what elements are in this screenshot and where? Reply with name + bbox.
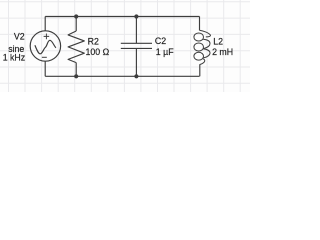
- svg-text:C2: C2: [155, 36, 166, 46]
- wire: bottom rail: [45, 75, 199, 77]
- junction: bottom rail / R2: [74, 74, 78, 78]
- wire: L2 top lead: [199, 17, 201, 31]
- voltage source V2 sine waveform: [35, 40, 56, 54]
- svg-text:R2: R2: [88, 36, 99, 46]
- voltage source V2 minus mark: [42, 56, 47, 58]
- wire: top rail: [45, 16, 199, 18]
- wire: R2 top lead: [75, 17, 77, 32]
- svg-text:100 Ω: 100 Ω: [86, 47, 110, 57]
- voltage source V2 (circle): [30, 31, 60, 61]
- junction: top rail / R2: [74, 14, 78, 18]
- junction: bottom rail / C2: [134, 74, 138, 78]
- voltage source V2 plus mark: [44, 34, 50, 40]
- wire: R2 bottom lead: [75, 63, 77, 77]
- svg-text:1 µF: 1 µF: [156, 47, 174, 57]
- svg-text:2 mH: 2 mH: [212, 47, 233, 57]
- wire: V2 bottom lead: [44, 61, 46, 76]
- junction: top rail / C2: [134, 14, 138, 18]
- wire: V2 top lead: [44, 17, 46, 31]
- wire: L2 bottom lead: [199, 64, 201, 76]
- wire: C2 bottom lead: [135, 48, 137, 76]
- inductor L2 (loopy coil): [194, 30, 211, 64]
- capacitor C2 bottom plate: [121, 47, 152, 49]
- svg-text:V2: V2: [14, 32, 25, 42]
- svg-text:1 kHz: 1 kHz: [3, 53, 26, 63]
- svg-text:L2: L2: [213, 36, 223, 46]
- wire: C2 top lead: [135, 17, 137, 44]
- resistor R2 (zigzag): [68, 31, 84, 63]
- capacitor C2 top plate: [121, 42, 152, 44]
